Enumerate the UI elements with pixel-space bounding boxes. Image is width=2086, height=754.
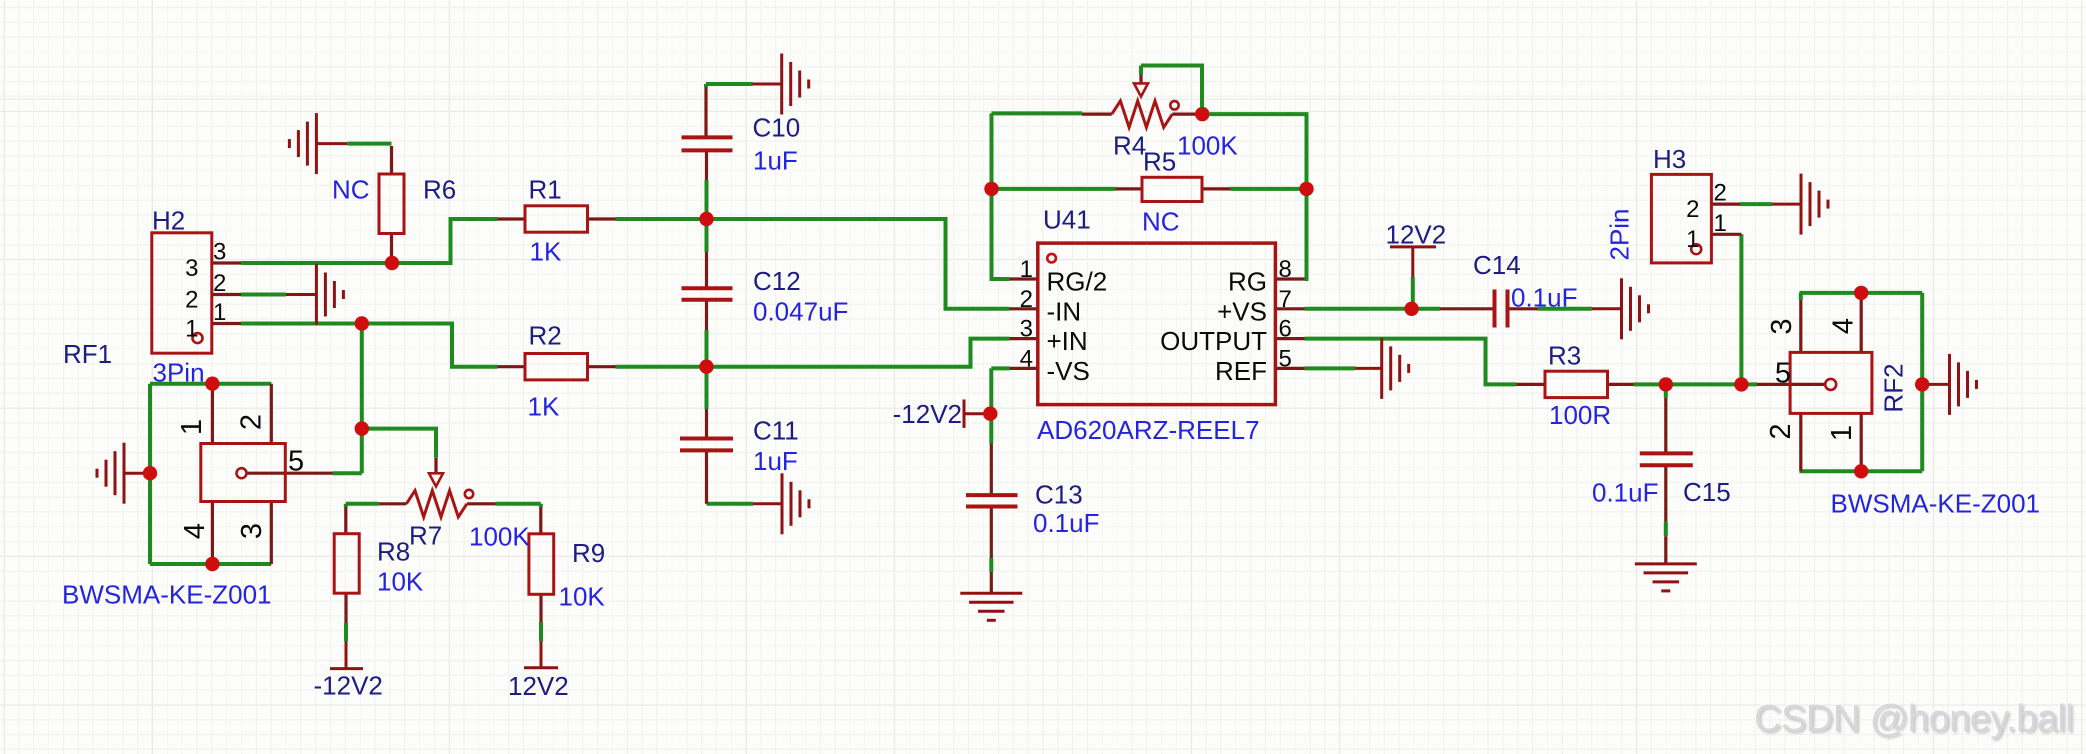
svg-text:5: 5 (288, 446, 304, 478)
svg-text:10K: 10K (559, 582, 606, 612)
svg-text:REF: REF (1215, 356, 1267, 386)
svg-text:5: 5 (1279, 345, 1292, 372)
svg-text:2Pin: 2Pin (1605, 208, 1635, 260)
svg-text:12V2: 12V2 (508, 671, 569, 701)
svg-text:BWSMA-KE-Z001: BWSMA-KE-Z001 (1831, 489, 2041, 519)
svg-text:R7: R7 (409, 521, 442, 551)
svg-text:C13: C13 (1035, 480, 1083, 510)
svg-text:R8: R8 (377, 537, 410, 567)
svg-text:R3: R3 (1548, 341, 1581, 371)
svg-text:R4: R4 (1113, 131, 1146, 161)
svg-text:100K: 100K (469, 522, 530, 552)
svg-text:-12V2: -12V2 (893, 399, 962, 429)
svg-text:R6: R6 (423, 175, 456, 205)
svg-text:5: 5 (1775, 358, 1791, 390)
svg-text:C12: C12 (753, 266, 801, 296)
svg-text:12V2: 12V2 (1386, 220, 1447, 250)
svg-text:RG/2: RG/2 (1047, 267, 1108, 297)
svg-text:3: 3 (185, 255, 198, 282)
svg-text:R1: R1 (529, 175, 562, 205)
svg-text:2: 2 (1714, 180, 1727, 207)
svg-text:1K: 1K (528, 392, 560, 422)
svg-text:4: 4 (1020, 345, 1033, 372)
svg-text:+VS: +VS (1217, 296, 1267, 326)
svg-text:C15: C15 (1683, 477, 1731, 507)
svg-text:H2: H2 (152, 206, 185, 236)
svg-text:0.1uF: 0.1uF (1033, 508, 1100, 538)
svg-text:R2: R2 (529, 321, 562, 351)
svg-text:8: 8 (1279, 256, 1292, 283)
svg-text:1: 1 (185, 315, 198, 342)
svg-text:R9: R9 (572, 538, 605, 568)
svg-text:1: 1 (176, 419, 208, 435)
svg-text:RF1: RF1 (63, 339, 112, 369)
svg-text:-VS: -VS (1047, 356, 1090, 386)
svg-text:7: 7 (1279, 286, 1292, 313)
svg-text:2: 2 (1686, 196, 1699, 223)
svg-text:R5: R5 (1143, 147, 1176, 177)
svg-text:3: 3 (213, 239, 226, 266)
svg-text:H3: H3 (1653, 144, 1686, 174)
svg-text:100K: 100K (1177, 131, 1238, 161)
svg-text:U41: U41 (1043, 205, 1091, 235)
svg-text:2: 2 (236, 414, 268, 430)
svg-text:NC: NC (332, 175, 370, 205)
svg-text:C14: C14 (1473, 250, 1521, 280)
svg-text:RG: RG (1228, 267, 1267, 297)
svg-text:C11: C11 (753, 416, 799, 446)
svg-text:1: 1 (1826, 425, 1858, 441)
svg-text:2: 2 (185, 286, 198, 313)
svg-text:1K: 1K (530, 237, 562, 267)
svg-text:1uF: 1uF (753, 146, 798, 176)
svg-text:C10: C10 (753, 113, 801, 143)
svg-text:2: 2 (1765, 423, 1797, 439)
svg-text:-12V2: -12V2 (314, 671, 383, 701)
svg-text:0.1uF: 0.1uF (1592, 478, 1659, 508)
svg-text:2: 2 (213, 270, 226, 297)
svg-text:2: 2 (1020, 286, 1033, 313)
svg-text:0.047uF: 0.047uF (753, 297, 848, 327)
svg-text:0.1uF: 0.1uF (1511, 283, 1578, 313)
svg-text:AD620ARZ-REEL7: AD620ARZ-REEL7 (1037, 415, 1260, 445)
svg-text:4: 4 (179, 523, 211, 539)
svg-text:OUTPUT: OUTPUT (1160, 326, 1267, 356)
svg-text:BWSMA-KE-Z001: BWSMA-KE-Z001 (62, 580, 272, 610)
svg-text:6: 6 (1279, 316, 1292, 343)
svg-text:3: 3 (1766, 318, 1798, 334)
svg-text:100R: 100R (1549, 400, 1611, 430)
svg-text:10K: 10K (377, 567, 424, 597)
svg-text:+IN: +IN (1047, 326, 1088, 356)
svg-text:1: 1 (213, 299, 226, 326)
svg-text:RF2: RF2 (1879, 363, 1909, 412)
svg-text:3: 3 (1020, 316, 1033, 343)
svg-text:-IN: -IN (1047, 296, 1082, 326)
svg-text:NC: NC (1142, 207, 1180, 237)
svg-text:1: 1 (1686, 226, 1699, 253)
svg-text:1uF: 1uF (753, 446, 798, 476)
svg-text:4: 4 (1828, 318, 1860, 334)
svg-text:3: 3 (236, 523, 268, 539)
svg-text:3Pin: 3Pin (153, 358, 205, 388)
svg-text:1: 1 (1714, 210, 1727, 237)
svg-text:1: 1 (1020, 256, 1033, 283)
